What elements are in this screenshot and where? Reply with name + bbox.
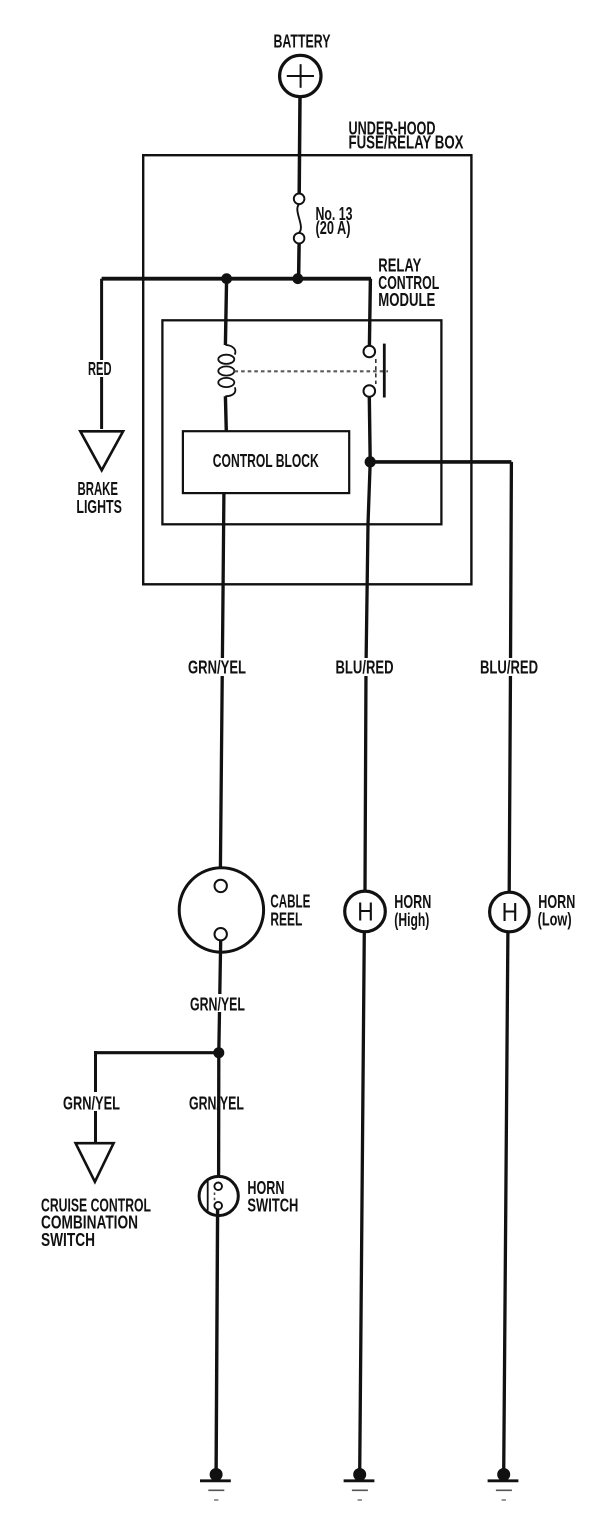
wire horn high to ground	[360, 932, 365, 1473]
junction dot fuse wire	[292, 273, 303, 284]
svg-text:BRAKE: BRAKE	[78, 479, 119, 499]
svg-text:(High): (High)	[394, 910, 429, 930]
wire contact down to junction	[368, 397, 372, 462]
BLU/RED label high	[333, 658, 397, 676]
wire battery to fuse	[297, 97, 301, 194]
junction dot coil wire	[221, 273, 232, 284]
svg-text:BLU/RED: BLU/RED	[336, 658, 394, 678]
wire horn switch to ground	[216, 1209, 218, 1473]
horn high	[345, 891, 386, 932]
GRN/YEL label mid	[188, 994, 248, 1012]
control block box	[183, 431, 349, 493]
relay control module outline	[162, 320, 441, 524]
wire bus corner down to relay contact	[369, 279, 370, 346]
wire junction to horn low (horizontal)	[370, 460, 511, 464]
wire cable reel to junction	[219, 940, 221, 1052]
relay coil L1	[218, 345, 235, 396]
wire RED branch vertical	[100, 279, 103, 429]
under-hood fuse/relay box outline	[143, 155, 471, 584]
relay contact K1	[364, 344, 385, 398]
arrow to cruise control combination switch	[76, 1143, 114, 1182]
junction dot control block right	[365, 456, 376, 467]
ground G2	[344, 1468, 375, 1500]
svg-text:LIGHTS: LIGHTS	[76, 497, 122, 517]
svg-text:REEL: REEL	[270, 910, 302, 930]
svg-text:HORN: HORN	[394, 892, 431, 912]
wire GRN/YEL from control block down to cable reel	[220, 493, 224, 880]
wire fuse to bus	[297, 244, 301, 279]
BLU/RED label low	[478, 658, 542, 676]
svg-text:CABLE: CABLE	[270, 892, 310, 912]
wire coil to control block	[224, 396, 228, 431]
GRN/YEL label horn switch	[186, 1092, 247, 1111]
junction dot cruise branch	[213, 1047, 224, 1058]
svg-text:CONTROL BLOCK: CONTROL BLOCK	[213, 451, 319, 471]
svg-text:BATTERY: BATTERY	[274, 32, 331, 52]
svg-text:RED: RED	[88, 359, 112, 379]
GRN/YEL label top	[185, 658, 251, 676]
svg-text:GRN/YEL: GRN/YEL	[189, 1094, 244, 1114]
svg-text:(Low): (Low)	[538, 910, 572, 930]
bus wire horizontal	[102, 277, 371, 281]
horn switch S1	[199, 1176, 238, 1215]
fuse No.13 (20 A)	[294, 194, 305, 244]
wire BLU/RED high down to horn high	[365, 462, 370, 891]
RED label	[84, 360, 115, 377]
svg-text:SWITCH: SWITCH	[41, 1230, 95, 1250]
svg-text:GRN/YEL: GRN/YEL	[63, 1094, 120, 1114]
wire horn low to ground	[504, 932, 508, 1473]
wire bus to coil	[225, 279, 226, 345]
svg-text:FUSE/RELAY BOX: FUSE/RELAY BOX	[349, 133, 464, 153]
svg-text:H: H	[502, 897, 519, 927]
ground G3	[488, 1468, 519, 1500]
svg-text:BLU/RED: BLU/RED	[480, 658, 538, 678]
horn low	[490, 892, 530, 932]
wire branch down to cruise arrow	[94, 1051, 97, 1143]
svg-text:H: H	[357, 897, 374, 927]
dashed link coil to contact	[235, 370, 389, 372]
svg-text:GRN/YEL: GRN/YEL	[188, 658, 246, 678]
cable reel	[179, 868, 263, 952]
battery B1	[280, 55, 321, 96]
wire junction to horn switch	[217, 1053, 220, 1183]
arrow to brake lights	[80, 431, 123, 470]
svg-text:(20 A): (20 A)	[316, 218, 351, 238]
GRN/YEL label cruise	[60, 1092, 124, 1111]
svg-text:GRN/YEL: GRN/YEL	[190, 995, 245, 1015]
wire branch horizontal to cruise	[96, 1051, 219, 1054]
svg-text:MODULE: MODULE	[378, 290, 435, 310]
svg-text:SWITCH: SWITCH	[247, 1196, 298, 1216]
ground G1	[200, 1468, 231, 1500]
wire BLU/RED low down to horn low	[509, 462, 511, 893]
